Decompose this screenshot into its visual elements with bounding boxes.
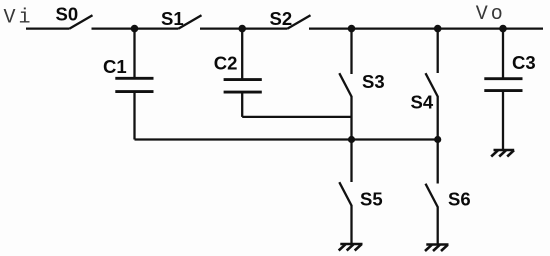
switch S5 [339, 140, 382, 244]
switch S6 [426, 140, 471, 244]
wire bottom bus C1 to S4 column [135, 138, 438, 140]
wire top segment S0 to S1 [92, 27, 179, 29]
svg-text:C2: C2 [214, 53, 238, 74]
wire C2 bottom bus to S3 column [242, 116, 351, 118]
switch S4 [411, 29, 438, 140]
capacitor C2 [214, 29, 262, 117]
wire top segment S2 to Vo [309, 27, 543, 29]
svg-text:C1: C1 [103, 56, 127, 77]
node junction dot Vo/C3 [499, 25, 507, 33]
svg-text:S2: S2 [270, 8, 293, 29]
svg-text:S3: S3 [362, 71, 385, 92]
ground (C3) [491, 150, 514, 157]
node junction dot bottom/S3 [348, 136, 355, 143]
ground (S6) [425, 245, 449, 252]
svg-text:S1: S1 [161, 8, 184, 29]
ground (S5) [339, 244, 363, 251]
wire top input segment Vi to S0 [26, 27, 70, 29]
node junction dot C2/top [238, 25, 246, 33]
svg-text:C3: C3 [512, 52, 536, 73]
capacitor C3 [484, 29, 535, 150]
svg-text:Vo: Vo [476, 3, 506, 26]
switch S0 [56, 4, 93, 29]
svg-text:S6: S6 [448, 188, 471, 209]
svg-text:S0: S0 [56, 4, 79, 25]
capacitor C1 [103, 29, 154, 140]
node junction dot C1/top [131, 25, 139, 33]
node junction dot S3/top [348, 25, 356, 33]
switch S1 [161, 8, 202, 29]
svg-text:Vi: Vi [4, 7, 34, 30]
switch S3 [339, 29, 384, 140]
svg-text:S5: S5 [360, 188, 383, 209]
svg-text:S4: S4 [411, 91, 434, 112]
wire top segment S1 to S2 [200, 27, 288, 29]
node junction dot S4/top [434, 25, 442, 33]
switch S2 [270, 8, 311, 29]
node junction dot bottom/S4 [434, 136, 441, 143]
